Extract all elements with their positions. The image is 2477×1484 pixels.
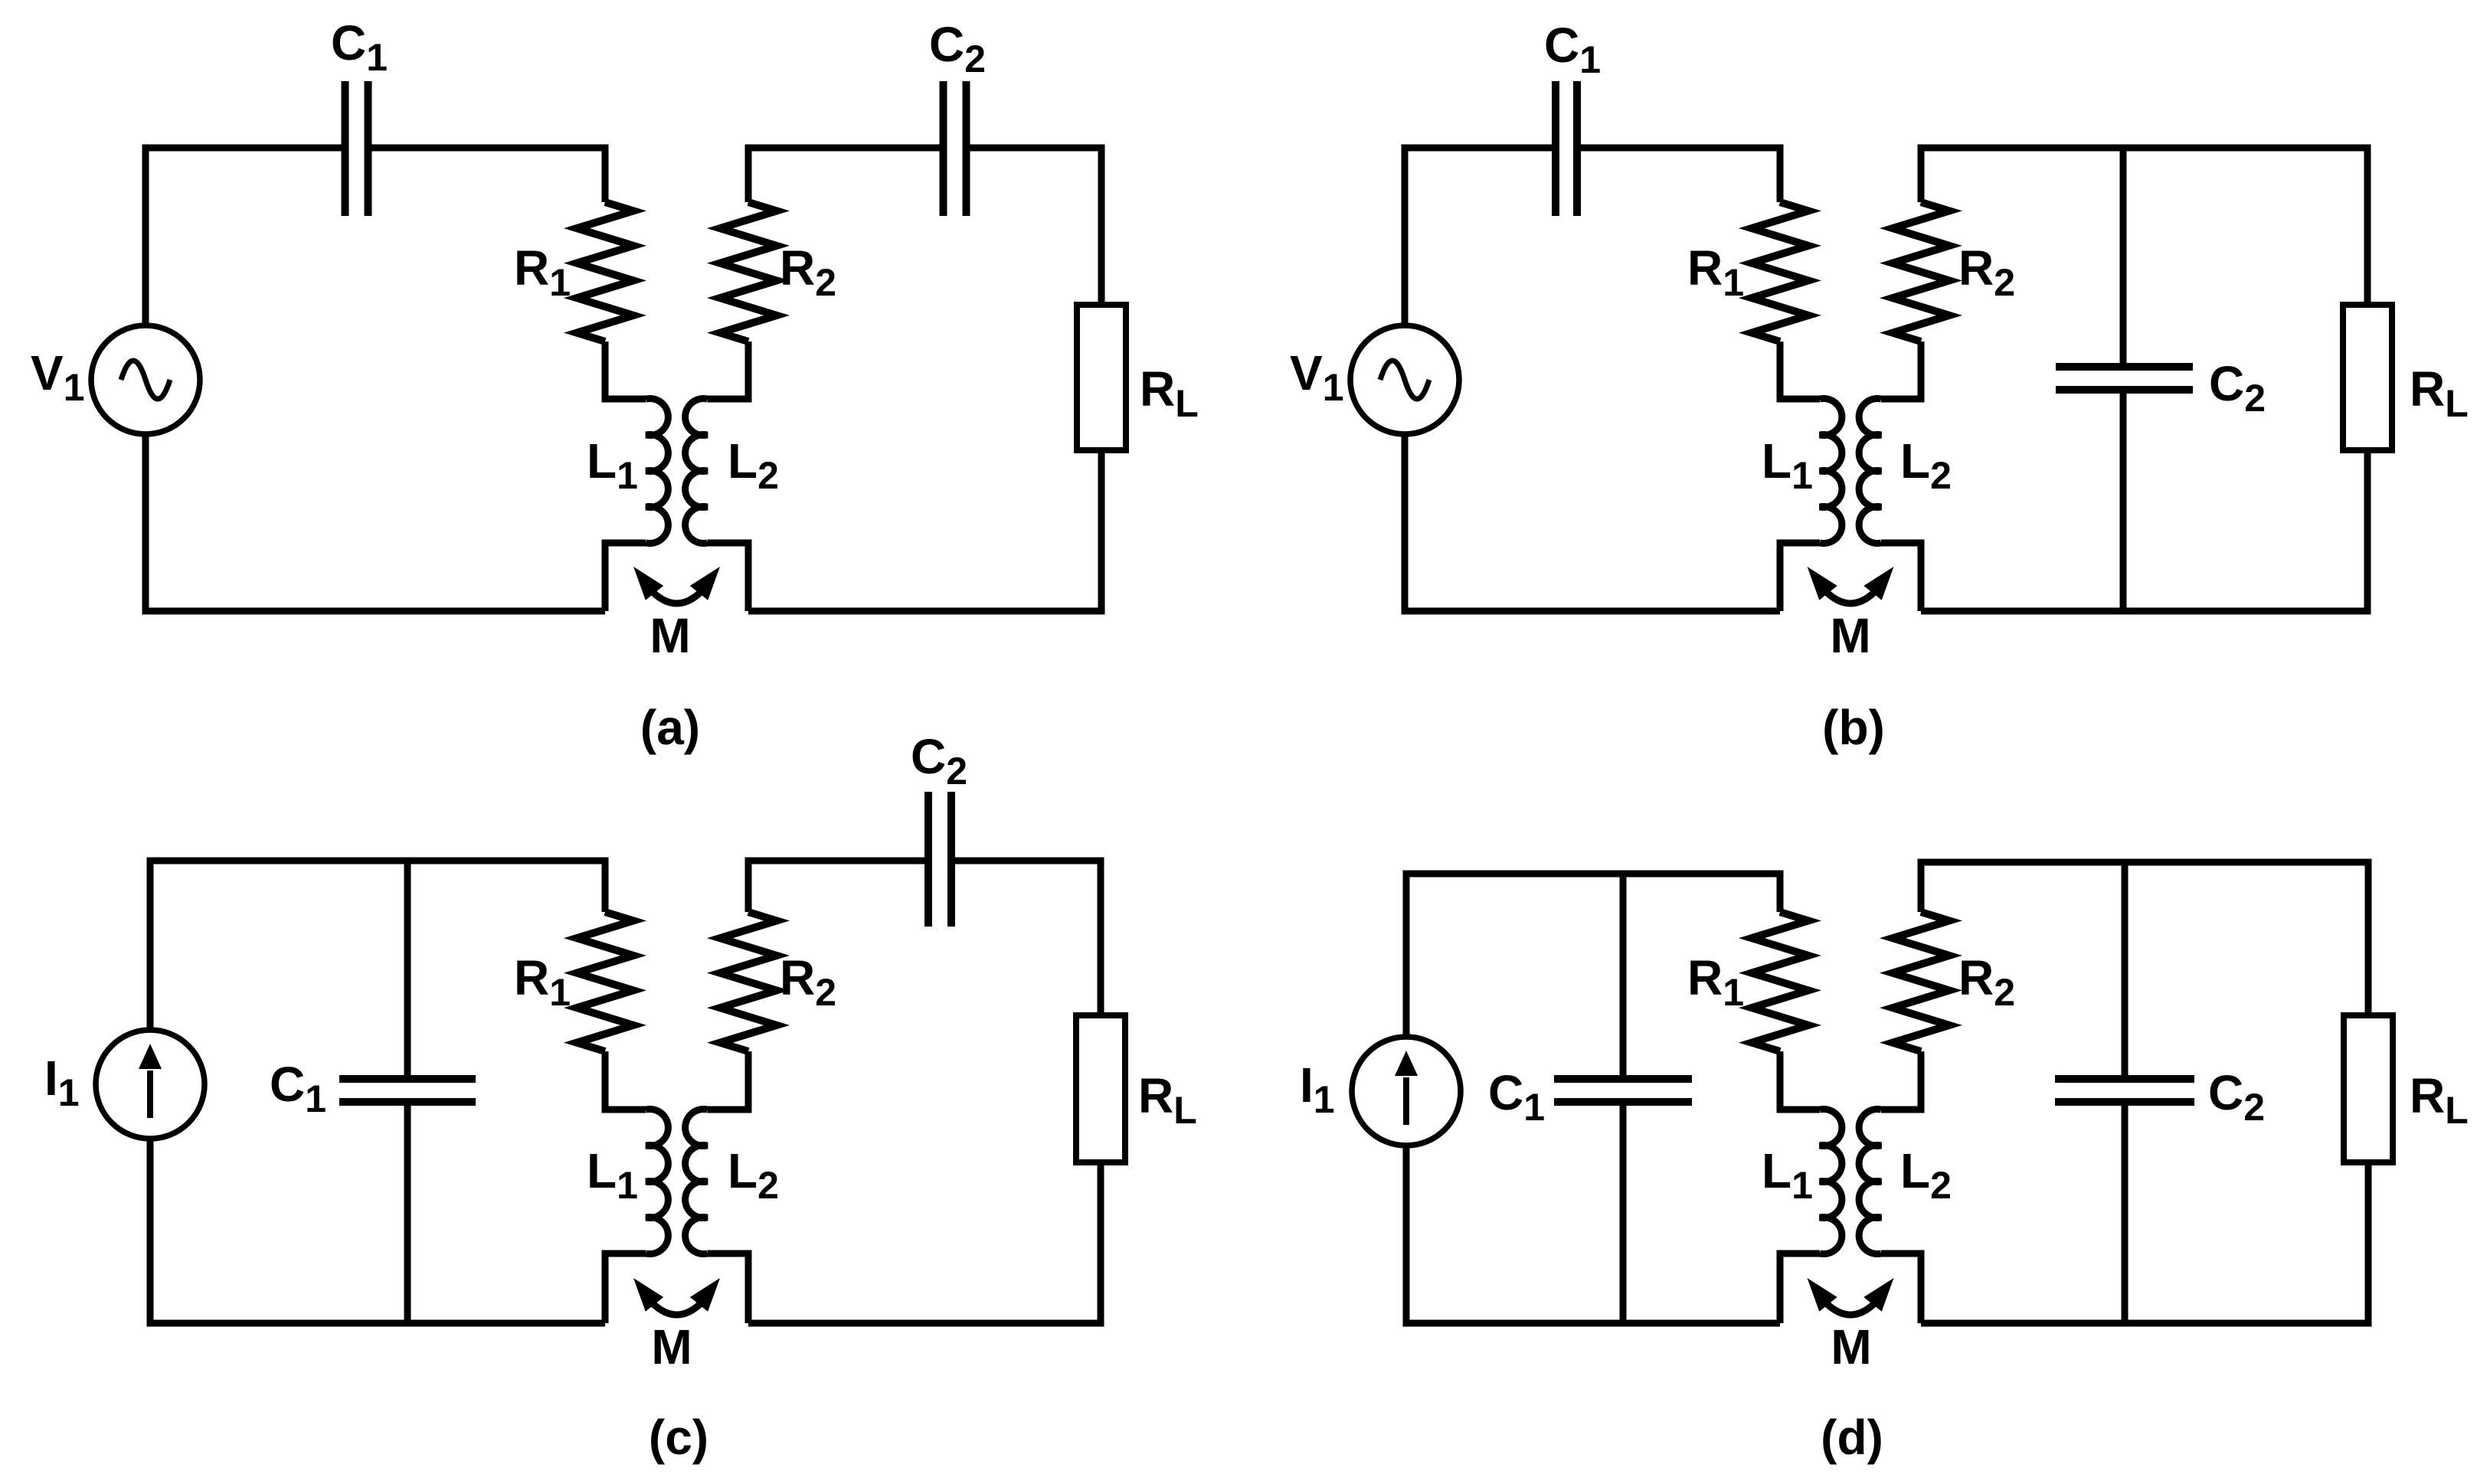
wire: R2 bottom to L2 top stub [1881,342,1921,399]
wire: bottom-left to I1 [1406,1146,1780,1323]
wire: R1 bottom to L1 top stub [1780,1051,1820,1110]
resistor R1 (zigzag) [1752,912,1808,1051]
wire: V1 top to C1 (top-left) [1405,148,1556,325]
wire: R1 bottom to L1 top stub [1780,342,1820,399]
wire: C1 to R1 top [1577,148,1780,202]
wire: R2 top to C2 [748,861,928,912]
capacitor C2 (series, vertical plates) [928,792,951,927]
resistor R2 (zigzag) [1893,202,1949,342]
wire: R2 top, top-right run and right edge [1921,862,2368,1015]
mutual coupling arrow M [1808,1278,1894,1315]
wire: L1 bottom stub and step down [605,1254,646,1323]
capacitor C2 (parallel, horizontal plates) [2055,1079,2194,1102]
wire: R2 bottom to L2 top stub [1881,1051,1921,1110]
wire: L2 bottom stub and step down [1881,1254,1921,1323]
svg-text:(d): (d) [1821,1410,1883,1465]
wire: L2 bottom stub and step down [708,1254,749,1323]
wire: C2 to RL top [967,148,1102,305]
capacitor C1 (series, vertical plates) [1556,81,1577,216]
wire: L1 bottom stub and step down [1780,543,1820,611]
capacitor C1 (parallel, horizontal plates) [1554,1079,1692,1102]
wire: RL bottom to bottom run [1921,450,2367,611]
svg-text:M: M [1831,1319,1871,1374]
wire: V1 top to C1 (top-left) [146,148,345,325]
inductor L2 (winding) [686,1110,708,1254]
wire: C1 branch upper [404,861,411,1079]
svg-text:(c): (c) [649,1410,708,1465]
circuit (a): series-series coupled resonant circuit [31,15,1199,755]
capacitor C2 (series, vertical plates) [944,81,967,216]
inductor L1 (winding) [1820,1110,1842,1254]
wire: L1 bottom stub and step down [605,543,646,611]
wire: C1 branch lower [404,1102,411,1323]
inductor L2 (winding) [1859,399,1881,544]
wire: R1 bottom to L1 top stub [605,1051,646,1110]
capacitor C1 (parallel, horizontal plates) [339,1079,476,1102]
wire: R2 top to C2 [748,148,944,202]
circuit (b): series-parallel coupled resonant circuit [1290,18,2469,755]
wire: I1 top to C1 branch (top-left) [150,861,407,1030]
DC current source I1 [96,1030,205,1139]
mutual coupling arrow M [633,1278,720,1315]
AC voltage source V1 [1350,325,1459,434]
wire: R2 bottom to L2 top stub [708,1051,749,1110]
wire: RL bottom to bottom-right [748,450,1101,611]
wire: R2 bottom to L2 top stub [708,342,749,399]
wire: C1 branch to R1 top [1623,874,1780,912]
wire: C1 branch to R1 top [407,861,605,912]
wire: C2 branch upper [2122,862,2129,1079]
wire: R2 top, top-right run and right edge [1921,148,2367,305]
load resistor RL (rectangle) [2343,305,2392,450]
wire: L1 bottom stub and step down [1780,1254,1820,1323]
load resistor RL (rectangle) [1076,1015,1125,1162]
wire: C2 branch upper [2120,148,2127,367]
wire: C1 branch upper [1620,874,1627,1079]
wire: L2 bottom stub and step down [708,543,749,611]
svg-text:M: M [651,1319,692,1374]
wire: C2 branch lower [2120,390,2127,611]
resistor R1 (zigzag) [1752,202,1808,342]
wire: bottom-left to V1 [1405,434,1780,611]
DC current source I1 [1352,1037,1461,1146]
wire: L2 bottom stub and step down [1881,543,1921,611]
inductor L2 (winding) [1859,1110,1881,1254]
circuit (c): parallel-series coupled resonant circuit [44,729,1197,1465]
AC voltage source V1 [91,325,200,434]
wire: RL bottom to bottom-right [748,1162,1101,1323]
inductor L1 (winding) [646,399,669,544]
capacitor C2 (parallel, horizontal plates) [2056,367,2193,390]
resistor R1 (zigzag) [577,202,633,342]
wire: C1 to R1 top [368,148,606,202]
mutual coupling arrow M [633,567,720,603]
wire: RL bottom to bottom run [1921,1162,2368,1323]
inductor L1 (winding) [1820,399,1842,544]
wire: C2 to RL top [951,861,1101,1015]
resistor R2 (zigzag) [720,202,777,342]
wire: R1 bottom to L1 top stub [605,342,646,399]
inductor L2 (winding) [686,399,708,544]
wire: bottom-left to V1 [146,434,605,611]
svg-text:M: M [1830,608,1870,663]
svg-text:(a): (a) [640,700,700,755]
resistor R2 (zigzag) [1893,912,1949,1051]
wire: bottom-left to I1 [150,1139,605,1323]
wire: I1 top to C1 branch (top-left) [1406,874,1623,1037]
resistor R1 (zigzag) [577,912,633,1051]
load resistor RL (rectangle) [1077,305,1126,450]
wire: C1 branch lower [1620,1102,1627,1323]
resistor R2 (zigzag) [720,912,777,1051]
capacitor C1 (series, vertical plates) [345,81,368,216]
mutual coupling arrow M [1808,567,1894,603]
inductor L1 (winding) [646,1110,669,1254]
load resistor RL (rectangle) [2344,1015,2393,1162]
svg-text:(b): (b) [1822,700,1885,755]
circuit (d): parallel-parallel coupled resonant circuit [1300,862,2469,1465]
wire: C2 branch lower [2122,1102,2129,1323]
svg-text:M: M [650,608,690,663]
